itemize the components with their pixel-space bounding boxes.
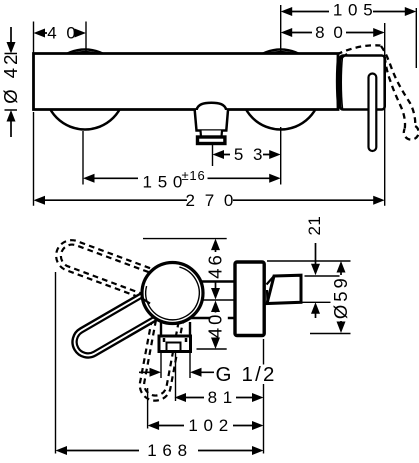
outlet neck (side view) xyxy=(161,322,190,336)
handle base inner edge xyxy=(341,56,342,109)
svg-text:40: 40 xyxy=(205,312,226,339)
svg-text:±16: ±16 xyxy=(182,168,206,183)
svg-text:5 3: 5 3 xyxy=(234,145,265,164)
loop handle solid (side view) xyxy=(72,280,180,358)
dimension dia 59 xyxy=(340,272,342,322)
stray dash of loop inside knob xyxy=(143,299,150,304)
svg-text:4 0: 4 0 xyxy=(47,24,78,43)
extension line union top xyxy=(305,275,340,277)
knob inner circle xyxy=(146,267,200,320)
dimension 102 xyxy=(158,425,253,427)
dashed lever cap xyxy=(404,126,419,140)
svg-text:G 1/2: G 1/2 xyxy=(216,363,277,386)
spout flange xyxy=(198,137,225,144)
extension line dia59 bottom xyxy=(310,333,351,335)
extension line outlet centerline xyxy=(175,352,177,401)
extension line handle-down front xyxy=(147,388,149,429)
dimension 40 (side) xyxy=(215,311,217,340)
svg-text:21: 21 xyxy=(305,216,324,236)
escutcheon left (front view) xyxy=(45,50,125,130)
escutcheon top lens right xyxy=(263,51,298,54)
extension line spout center xyxy=(212,145,214,167)
extension line escutcheon-left center top xyxy=(85,22,87,52)
dimension 46 xyxy=(215,250,217,289)
handle base corner chamfer xyxy=(339,54,347,60)
svg-text:Ø59: Ø59 xyxy=(330,275,351,319)
spout (front view) xyxy=(197,103,227,110)
union chamfer xyxy=(267,276,275,302)
body knob circle (side view) xyxy=(142,263,203,324)
dimension 80 xyxy=(291,32,375,34)
body tube pipe (side view) xyxy=(190,282,234,319)
extension line union bottom xyxy=(301,301,331,303)
extension lines dia42 xyxy=(5,54,18,111)
svg-text:2 7 0: 2 7 0 xyxy=(186,191,236,210)
outlet flange nut xyxy=(159,336,191,352)
dimension 105 xyxy=(291,11,407,13)
svg-text:1 5 0: 1 5 0 xyxy=(143,173,183,192)
extension line handle-raised front xyxy=(55,272,57,454)
extension lines G1/2 thread xyxy=(161,352,190,378)
dimension 21 xyxy=(315,243,317,318)
loop handle inner outline xyxy=(77,283,179,353)
svg-text:1 6 8: 1 6 8 xyxy=(147,441,187,460)
dimension 53 xyxy=(224,154,270,156)
dimension 81 xyxy=(185,397,253,399)
dashed loop handle raised (side view) xyxy=(56,240,178,307)
extension line escutcheon-left center bottom xyxy=(82,131,84,185)
dimension 168 xyxy=(66,450,253,452)
dimension 270 xyxy=(44,199,375,201)
extension line rect top / dia59 top xyxy=(267,260,351,262)
wall escutcheon rect (side view) xyxy=(235,262,264,336)
svg-text:8 1: 8 1 xyxy=(208,388,233,407)
escutcheon top lens left xyxy=(68,51,103,54)
dashed handle arc (swung position, front view) xyxy=(337,45,381,54)
extension line bar left xyxy=(33,22,35,206)
dashed loop handle lowered (side view) xyxy=(140,290,188,400)
svg-text:1 0 2: 1 0 2 xyxy=(188,416,228,435)
extension line top ref 46 xyxy=(143,238,227,240)
mixer body bar (front view) xyxy=(34,54,339,110)
wall union (side view) xyxy=(267,275,301,303)
svg-text:Ø 42: Ø 42 xyxy=(0,52,21,104)
dashed lever inner edge xyxy=(385,57,405,129)
svg-text:8 0: 8 0 xyxy=(315,23,345,42)
dimension dia 42 xyxy=(10,27,12,137)
extension line handle base right xyxy=(384,23,386,206)
handle lever (front view) xyxy=(369,74,377,152)
handle base (front view) xyxy=(340,56,385,110)
dashed lever outer edge xyxy=(381,46,415,126)
dimension 40 xyxy=(45,32,77,34)
extension line escutcheon-right center xyxy=(280,5,282,185)
extension line right wall plane xyxy=(263,339,265,454)
extension line outlet bottom xyxy=(197,348,227,350)
extension line lever tip right xyxy=(415,8,417,68)
escutcheon right (front view) xyxy=(241,50,321,130)
dimension G 1/2 leader xyxy=(139,371,214,373)
axis extension line xyxy=(197,299,234,301)
dimension 150 +/-16 xyxy=(94,177,270,179)
bar end cap curve xyxy=(337,54,338,109)
svg-text:46: 46 xyxy=(205,252,226,279)
svg-text:1 0 5: 1 0 5 xyxy=(333,1,373,20)
